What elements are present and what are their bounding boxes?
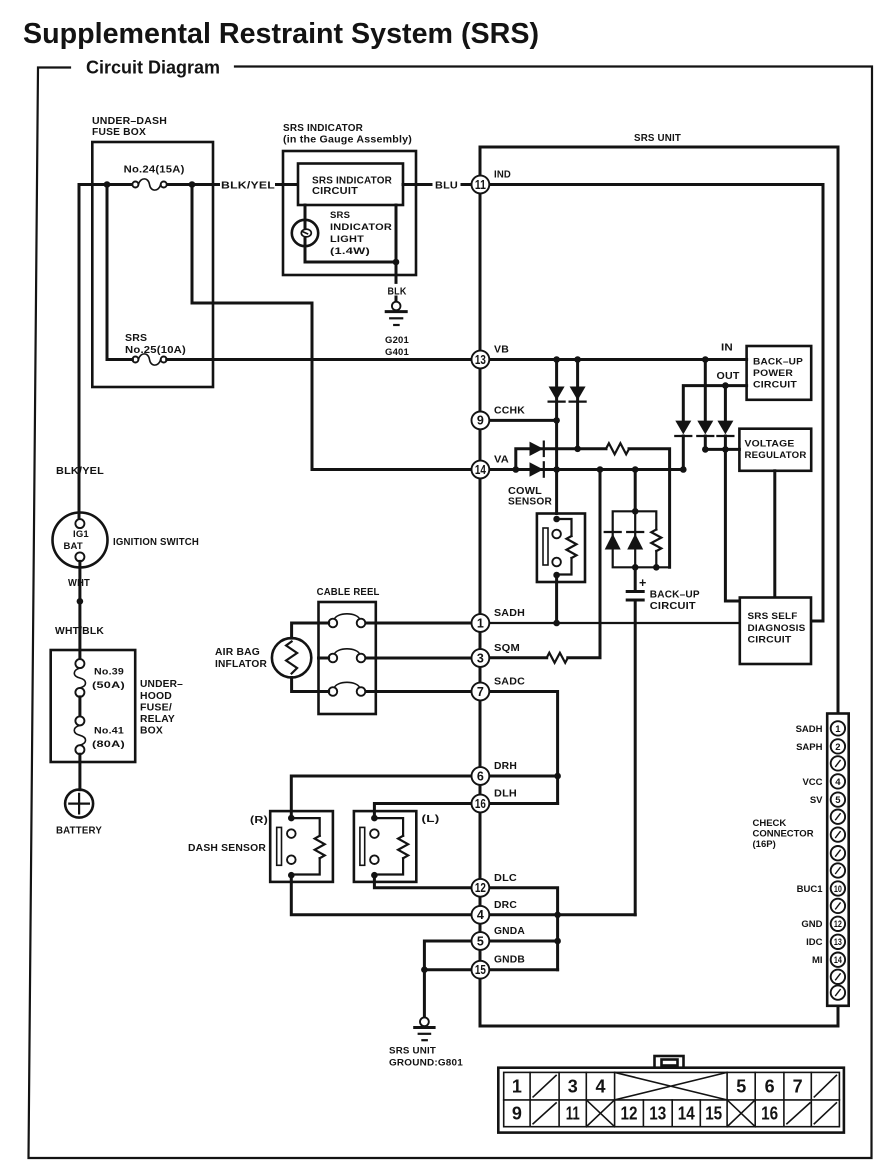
node GNDA bus junction — [554, 938, 561, 945]
node sense/chainB junction — [574, 446, 581, 453]
svg-text:16: 16 — [475, 797, 486, 811]
ground G801 — [389, 1017, 464, 1068]
diode D2 (VB to sense line) — [570, 387, 586, 402]
diode D3 (sense) — [530, 442, 544, 456]
svg-text:FUSE/: FUSE/ — [140, 702, 172, 714]
pin 4 DRC — [472, 899, 518, 924]
svg-text:IN: IN — [721, 342, 733, 354]
wire VB diode chain A — [555, 360, 558, 514]
svg-text:BLK/YEL: BLK/YEL — [221, 180, 275, 192]
pin 13 VB — [472, 344, 510, 369]
svg-text:SV: SV — [810, 795, 823, 806]
wire BLK to ground G201 — [395, 275, 398, 302]
back-up circuit diode/resistor network — [605, 466, 670, 570]
svg-text:CCHK: CCHK — [494, 405, 525, 417]
svg-text:7: 7 — [477, 685, 484, 699]
wire SADH pin 1 to self diagnosis circuit — [490, 622, 740, 624]
svg-text:WHT: WHT — [68, 577, 90, 589]
svg-text:DIAGNOSIS: DIAGNOSIS — [748, 623, 806, 634]
svg-text:1: 1 — [835, 724, 841, 735]
svg-text:SRS SELF: SRS SELF — [748, 611, 798, 622]
wire DLC pin 12 to ground bus — [490, 888, 558, 970]
svg-text:BACK–UP: BACK–UP — [753, 357, 803, 368]
wire GNDA pin 5 stub inside — [490, 940, 558, 943]
svg-text:CIRCUIT: CIRCUIT — [650, 600, 696, 612]
SRS indicator assembly outer box — [283, 122, 416, 275]
svg-text:6: 6 — [765, 1076, 775, 1096]
capacitor C1 back-up — [627, 567, 700, 915]
svg-text:DASH SENSOR: DASH SENSOR — [188, 842, 266, 854]
svg-text:MI: MI — [812, 955, 823, 966]
pin 9 CCHK — [472, 405, 526, 430]
resistor R2 on SQM line — [547, 653, 568, 663]
wire GNDB pin 15 stub inside — [490, 968, 558, 971]
check pin 16 unused — [831, 985, 845, 999]
svg-text:LIGHT: LIGHT — [330, 234, 364, 245]
node DRH bus junction — [554, 773, 561, 780]
wire indicator circuit to bulb — [304, 205, 307, 262]
svg-text:4: 4 — [835, 777, 841, 788]
svg-text:CONNECTOR: CONNECTOR — [753, 829, 814, 840]
svg-text:Circuit Diagram: Circuit Diagram — [86, 58, 220, 78]
check pin 4 VCC — [802, 774, 845, 788]
diode D4 (VA rail) — [530, 462, 544, 476]
svg-text:SADH: SADH — [494, 607, 525, 619]
node junction bulb return — [393, 259, 400, 266]
svg-text:(L): (L) — [422, 813, 440, 825]
node GNDB/ground junction — [421, 966, 428, 973]
wire SADC pin 7 to DRH/DLH bus — [490, 692, 558, 804]
svg-text:13: 13 — [475, 353, 486, 367]
svg-text:(1.4W): (1.4W) — [330, 246, 370, 257]
wire DRH pin 6 to dash sensor R — [291, 776, 471, 818]
check pin 12 GND — [801, 917, 845, 931]
resistor R1 on sense line — [606, 443, 629, 454]
pin 7 SADC — [472, 676, 526, 701]
16P cavity numbers bottom row — [512, 1104, 778, 1124]
node DRC bus junction — [554, 912, 561, 919]
svg-text:GNDA: GNDA — [494, 925, 525, 937]
cable reel loop 3 — [329, 682, 366, 695]
svg-text:(in the Gauge Assembly): (in the Gauge Assembly) — [283, 134, 412, 146]
16P connector tab — [655, 1056, 684, 1068]
check pin 7 unused — [831, 827, 845, 841]
check pin 8 unused — [831, 846, 845, 860]
node junction at fuse 24 input — [104, 181, 111, 188]
svg-text:14: 14 — [678, 1104, 695, 1124]
check pin 3 unused — [831, 756, 845, 770]
dash sensor R — [270, 811, 333, 882]
svg-text:DRH: DRH — [494, 760, 517, 772]
wire diode rail to voltage regulator — [705, 448, 739, 451]
voltage regulator box — [739, 429, 811, 471]
svg-text:3: 3 — [477, 651, 484, 665]
pin 6 DRH — [472, 760, 518, 785]
svg-text:14: 14 — [834, 955, 843, 966]
svg-text:1: 1 — [477, 616, 484, 630]
pin 3 SQM — [472, 642, 521, 667]
svg-text:POWER: POWER — [753, 368, 793, 379]
svg-text:CIRCUIT: CIRCUIT — [748, 635, 792, 646]
svg-text:BOX: BOX — [140, 725, 163, 737]
16P cell diagonals — [533, 1072, 836, 1126]
svg-text:IDC: IDC — [806, 937, 823, 948]
svg-text:WHT/BLK: WHT/BLK — [55, 625, 104, 637]
wire DLH pin 16 to dash sensor L — [374, 804, 471, 819]
fuse SRS No.25(10A) — [125, 332, 186, 365]
wire WHT from ignition switch — [78, 561, 81, 659]
node diode rail junction — [702, 446, 709, 453]
wire VB feed from fuse 25 to pin 13 — [107, 358, 471, 361]
svg-text:No.39: No.39 — [94, 667, 124, 678]
svg-text:OUT: OUT — [717, 370, 740, 382]
wire fuse 41 to battery — [78, 754, 81, 790]
ground G201/G401 — [385, 302, 410, 358]
diode D1 (VB to CCHK) — [549, 387, 565, 402]
svg-text:REGULATOR: REGULATOR — [745, 450, 807, 461]
under-hood fuse/relay box — [51, 650, 183, 762]
pin 16 DLH — [472, 788, 518, 813]
svg-text:(80A): (80A) — [92, 739, 125, 750]
svg-text:5: 5 — [736, 1076, 746, 1096]
svg-text:G401: G401 — [385, 347, 410, 358]
pin 5 GNDA — [472, 925, 526, 950]
wire SADC cable reel to pin 7 — [365, 690, 471, 693]
svg-text:GND: GND — [801, 919, 822, 930]
wire dash sensor L to DLC — [374, 875, 471, 888]
svg-text:INFLATOR: INFLATOR — [215, 658, 267, 670]
SRS indicator circuit box — [298, 164, 403, 206]
cable reel loop 1 — [329, 614, 366, 627]
svg-text:+: + — [639, 576, 646, 590]
svg-text:SQM: SQM — [494, 642, 520, 654]
wire SQM cable reel to pin 3 — [365, 657, 471, 660]
diode D5 (OUT left) — [675, 421, 691, 436]
svg-text:CIRCUIT: CIRCUIT — [753, 380, 797, 391]
wire CCHK pin 9 stub — [490, 419, 557, 422]
16P cavity numbers top row — [512, 1076, 803, 1096]
wire inflator to loop3 — [292, 678, 329, 692]
svg-text:SRS: SRS — [125, 332, 147, 344]
air bag inflator — [215, 638, 311, 677]
svg-text:BACK–UP: BACK–UP — [650, 589, 700, 601]
check pin 2 SAPH — [796, 739, 845, 753]
svg-text:CIRCUIT: CIRCUIT — [312, 185, 358, 197]
battery — [56, 790, 102, 837]
check pin 13 IDC — [806, 935, 845, 949]
wire battery feed to fuse box (BLK/YEL) — [79, 185, 298, 520]
svg-text:DLC: DLC — [494, 872, 517, 884]
wire DLH pin 16 stub — [490, 802, 558, 805]
wire VB rail pin 13 to back-up power circuit IN — [490, 358, 747, 361]
svg-text:5: 5 — [477, 934, 484, 948]
SRS indicator light bulb (1.4W) — [292, 210, 392, 257]
svg-text:INDICATOR: INDICATOR — [330, 222, 392, 233]
node CCHK junction — [553, 417, 560, 424]
svg-text:15: 15 — [475, 963, 486, 977]
svg-text:1: 1 — [512, 1076, 522, 1096]
pin 12 DLC — [472, 872, 518, 897]
check connector (16P) box — [753, 714, 849, 1006]
svg-text:IGNITION SWITCH: IGNITION SWITCH — [113, 536, 199, 548]
svg-text:14: 14 — [475, 463, 486, 477]
svg-text:(50A): (50A) — [92, 680, 125, 691]
svg-text:CHECK: CHECK — [753, 818, 787, 829]
svg-text:SRS UNIT: SRS UNIT — [389, 1046, 436, 1057]
svg-text:BLK: BLK — [388, 286, 407, 298]
svg-text:No.25(10A): No.25(10A) — [125, 344, 186, 356]
pin 1 SADH — [472, 607, 526, 632]
wire bulb to ground rail — [305, 261, 396, 264]
node VB/chainB — [574, 356, 581, 363]
wire IND pin 11 to self diagnosis circuit — [490, 185, 824, 622]
check pin 5 SV — [810, 792, 845, 806]
wire OUT rail — [683, 386, 746, 421]
svg-text:3: 3 — [568, 1076, 578, 1096]
wire loop2 stub — [319, 657, 329, 660]
check pin 15 unused — [831, 970, 845, 984]
node SADH/cowl junction — [553, 620, 560, 627]
svg-text:IND: IND — [494, 169, 511, 181]
svg-text:10: 10 — [834, 884, 842, 895]
svg-text:DRC: DRC — [494, 899, 517, 911]
svg-text:BLK/YEL: BLK/YEL — [56, 465, 104, 477]
wire dash sensor R to DRC — [291, 875, 471, 915]
svg-text:(16P): (16P) — [753, 839, 776, 850]
fuse No.24(15A) — [124, 164, 185, 191]
node VA/sense branch — [513, 466, 520, 473]
svg-text:13: 13 — [649, 1104, 666, 1124]
svg-text:VB: VB — [494, 344, 509, 356]
wire voltage regulator to self diagnosis — [773, 471, 776, 598]
check pin 6 unused — [831, 810, 845, 824]
svg-text:BAT: BAT — [64, 541, 83, 552]
svg-text:4: 4 — [477, 908, 484, 922]
pin 14 VA — [472, 454, 510, 479]
svg-text:VA: VA — [494, 454, 509, 466]
check pin 10 BUC1 — [797, 881, 845, 895]
wire inflator to loop1 — [292, 623, 329, 638]
svg-text:FUSE BOX: FUSE BOX — [92, 126, 146, 138]
svg-text:5: 5 — [835, 795, 841, 806]
svg-text:16: 16 — [761, 1104, 778, 1124]
svg-text:15: 15 — [705, 1104, 722, 1124]
svg-text:SAPH: SAPH — [796, 742, 823, 753]
wire cowl sensor to SADH — [555, 575, 558, 623]
wire indicator circuit right leg down — [395, 205, 398, 275]
svg-text:GROUND:G801: GROUND:G801 — [389, 1058, 464, 1069]
ignition switch — [53, 513, 200, 568]
check pin 14 MI — [812, 953, 845, 967]
node VA end junction — [680, 466, 687, 473]
wire fuse24 input down to fuse 25 — [106, 185, 109, 360]
svg-text:No.24(15A): No.24(15A) — [124, 164, 185, 176]
svg-text:12: 12 — [621, 1104, 638, 1124]
svg-text:SRS: SRS — [330, 210, 350, 221]
svg-text:12: 12 — [475, 881, 486, 895]
svg-text:Supplemental Restraint System: Supplemental Restraint System (SRS) — [23, 18, 539, 50]
svg-text:BUC1: BUC1 — [797, 884, 824, 895]
wire SADH cable reel to pin 1 — [365, 622, 471, 625]
svg-text:12: 12 — [834, 919, 842, 930]
svg-text:SADC: SADC — [494, 676, 525, 688]
node SQM/VA junction — [597, 466, 604, 473]
svg-text:GNDB: GNDB — [494, 954, 525, 966]
wire VA rail pin 14 — [490, 468, 684, 471]
pin 11 IND — [472, 169, 512, 194]
wire VA sense branch with diode D3 — [516, 449, 670, 568]
wire DRH pin 6 stub — [490, 775, 558, 778]
fuse No.41(80A) — [74, 716, 125, 754]
node VB/chainA — [553, 356, 560, 363]
svg-text:7: 7 — [793, 1076, 803, 1096]
svg-text:9: 9 — [512, 1104, 522, 1124]
fuse No.39(50A) — [74, 659, 125, 697]
node chainA/VA junction — [553, 466, 560, 473]
svg-text:No.41: No.41 — [94, 726, 125, 737]
wire BLU indicator to pin 11 — [403, 183, 471, 186]
svg-text:G201: G201 — [385, 335, 410, 346]
dash sensor L — [354, 811, 416, 882]
svg-text:9: 9 — [477, 414, 484, 428]
16P connector grid — [504, 1072, 840, 1126]
svg-text:SRS UNIT: SRS UNIT — [634, 132, 681, 144]
check pin 9 unused — [831, 863, 845, 877]
SRS unit box — [480, 132, 838, 1026]
svg-text:BATTERY: BATTERY — [56, 825, 102, 837]
node junction at fuse 24 output — [189, 181, 196, 188]
svg-text:13: 13 — [834, 937, 842, 948]
wire fuse24 output to VA feed — [192, 185, 471, 470]
svg-text:4: 4 — [595, 1076, 605, 1096]
check pin 1 SADH — [796, 721, 846, 735]
diode D7 (OUT right) — [717, 386, 733, 450]
under-dash fuse box — [92, 115, 213, 387]
back-up power circuit box — [747, 346, 812, 400]
wire SQM pin 3 with resistor R2 — [490, 470, 601, 658]
svg-text:SENSOR: SENSOR — [508, 496, 552, 508]
wire VB diode chain B — [576, 360, 579, 449]
svg-text:11: 11 — [475, 178, 486, 192]
check pin 11 unused — [831, 899, 845, 913]
wire regulator feed down to self diagnosis box — [725, 449, 739, 601]
wire between fuses — [78, 697, 81, 717]
svg-text:VCC: VCC — [802, 777, 822, 788]
wire GNDA pin 5 to ground — [424, 941, 471, 1016]
svg-text:RELAY: RELAY — [140, 713, 175, 725]
node splice WHT/WHT-BLK — [77, 598, 84, 605]
node diode rail to diagnosis feed — [722, 446, 729, 453]
pin 15 GNDB — [472, 954, 526, 979]
svg-text:CABLE REEL: CABLE REEL — [317, 586, 380, 598]
svg-text:VOLTAGE: VOLTAGE — [745, 439, 795, 450]
wire D5 to VA rail end — [682, 436, 685, 470]
node VB at back-up diode — [702, 356, 709, 363]
svg-text:(R): (R) — [250, 814, 268, 826]
svg-text:IG1: IG1 — [73, 529, 89, 540]
diode D6 (VB middle) — [697, 360, 713, 450]
SRS self diagnosis circuit box — [740, 598, 811, 665]
svg-text:2: 2 — [835, 742, 840, 753]
svg-text:HOOD: HOOD — [140, 690, 172, 702]
cable reel — [317, 586, 380, 714]
svg-text:6: 6 — [477, 769, 484, 783]
node OUT/right diode — [722, 382, 729, 389]
16P connector body — [498, 1068, 844, 1133]
svg-text:DLH: DLH — [494, 788, 517, 800]
svg-text:SRS INDICATOR: SRS INDICATOR — [283, 122, 363, 134]
cable reel loop 2 — [329, 649, 366, 662]
svg-text:SADH: SADH — [796, 724, 823, 735]
wire DRC pin 4 to capacitor return — [490, 913, 636, 916]
svg-text:AIR BAG: AIR BAG — [215, 646, 260, 658]
svg-text:UNDER–: UNDER– — [140, 678, 183, 690]
svg-text:BLU: BLU — [435, 180, 458, 192]
wire GNDB pin 15 to ground bus — [424, 968, 471, 971]
svg-text:11: 11 — [566, 1104, 580, 1124]
cowl sensor — [508, 485, 585, 582]
